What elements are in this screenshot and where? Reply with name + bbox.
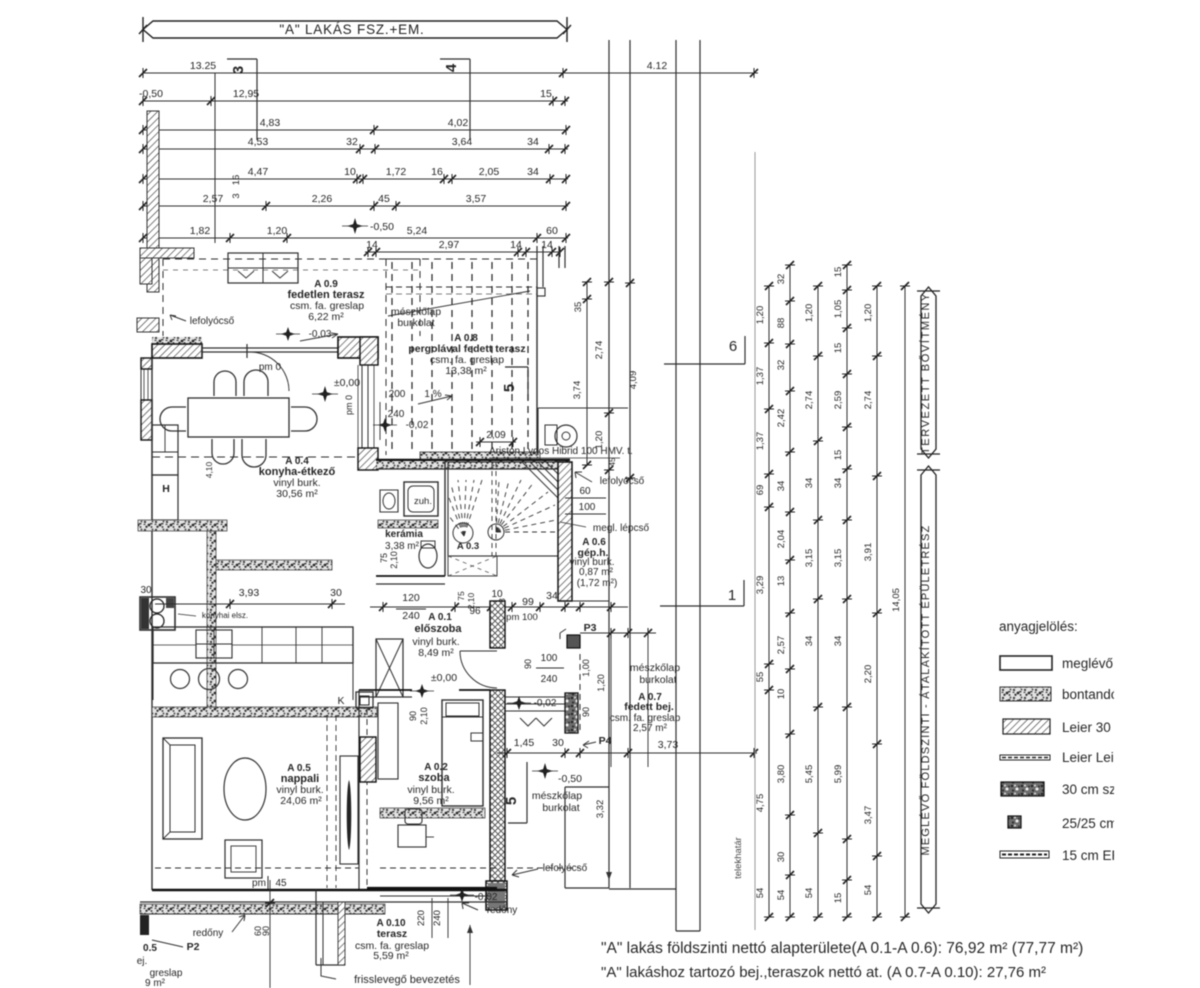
svg-text:2,04: 2,04 — [776, 530, 787, 549]
svg-text:2,57: 2,57 — [776, 636, 787, 655]
banner TERVEZETT BOVITMENY — [921, 287, 936, 458]
dimension row 4,47 / 10 / 1,72 / 16 / 2,05 / 34 — [143, 178, 568, 180]
svg-text:240: 240 — [388, 409, 405, 420]
svg-text:1,45: 1,45 — [514, 737, 535, 749]
dimension row -0,50 / 12,95 / 15 — [143, 100, 568, 102]
dining chair right — [291, 407, 317, 431]
legend swatch meglevo — [1000, 656, 1052, 670]
svg-text:telekhatár: telekhatár — [733, 837, 744, 879]
svg-text:burkolat: burkolat — [542, 802, 579, 814]
svg-text:90: 90 — [261, 926, 271, 936]
svg-text:75: 75 — [379, 553, 389, 563]
svg-text:3,29: 3,29 — [755, 576, 766, 595]
svg-text:szoba: szoba — [418, 772, 450, 784]
column K box — [356, 692, 373, 708]
window right kitchen wall — [361, 365, 363, 448]
svg-text:32: 32 — [776, 274, 787, 285]
svg-text:15: 15 — [833, 450, 844, 461]
dim 3,93 / 30 kitchen — [155, 603, 345, 605]
szoba bottom window dashed — [380, 867, 497, 869]
svg-text:pm: pm — [252, 878, 266, 889]
svg-text:megl. lépcső: megl. lépcső — [593, 523, 650, 534]
sofa — [163, 738, 202, 839]
svg-text:fedett bej.: fedett bej. — [624, 701, 674, 713]
svg-text:3,93: 3,93 — [239, 587, 260, 599]
svg-text:2,42: 2,42 — [776, 409, 787, 428]
property line telekhatar — [754, 152, 756, 930]
geph top line y408 — [538, 407, 628, 409]
wall crosshatch x490 lower — [490, 690, 505, 881]
stair right flight radial treads — [496, 480, 556, 532]
wc toilet — [419, 544, 437, 568]
svg-text:3: 3 — [230, 66, 247, 74]
terrace A 0.8 bottom speckle band — [420, 452, 540, 462]
svg-text:45: 45 — [275, 878, 287, 889]
svg-text:60: 60 — [546, 225, 558, 237]
speckle band szoba y808 — [380, 808, 485, 818]
svg-text:100: 100 — [541, 653, 558, 664]
svg-text:meglévő: meglévő — [1062, 656, 1113, 671]
svg-text:13,38 m²: 13,38 m² — [445, 365, 487, 377]
svg-text:15: 15 — [833, 893, 844, 904]
svg-text:4,75: 4,75 — [755, 794, 766, 813]
szoba left wall hatch block — [360, 737, 376, 782]
dimension row 13.25 / 4.12 — [143, 72, 758, 74]
svg-text:240: 240 — [541, 674, 558, 685]
svg-text:55: 55 — [755, 672, 766, 683]
wall band bathroom top y455 — [376, 459, 570, 461]
legend swatch 25/25 — [1008, 816, 1021, 828]
svg-text:5: 5 — [501, 384, 518, 392]
svg-text:34: 34 — [804, 636, 815, 647]
svg-text:előszoba: előszoba — [414, 623, 462, 635]
svg-text:P2: P2 — [187, 941, 200, 953]
bed — [442, 700, 483, 806]
svg-text:6,22 m²: 6,22 m² — [308, 311, 344, 323]
svg-text:P3: P3 — [584, 622, 597, 634]
svg-text:pm 100: pm 100 — [506, 612, 538, 623]
svg-text:bontandó: bontandó — [1062, 687, 1118, 702]
svg-text:220: 220 — [416, 910, 427, 926]
svg-text:4,53: 4,53 — [248, 136, 269, 148]
svg-text:12,95: 12,95 — [233, 88, 259, 100]
svg-text:100: 100 — [579, 502, 596, 513]
grid marker 3 — [227, 58, 257, 60]
svg-text:2,09: 2,09 — [486, 430, 506, 441]
banner MEGLEVO FOLDSZINTI - ATALAKITOTT EPULETRESZ — [921, 466, 936, 913]
svg-text:34: 34 — [776, 481, 787, 492]
svg-text:MEGLÉVŐ FÖLDSZINTI - ÁTALAKÍTO: MEGLÉVŐ FÖLDSZINTI - ÁTALAKÍTOTT ÉPÜLETR… — [918, 525, 932, 856]
svg-text:2,26: 2,26 — [312, 193, 333, 205]
svg-text:-0,02: -0,02 — [534, 698, 557, 709]
svg-text:4,09: 4,09 — [628, 371, 639, 390]
svg-text:4,83: 4,83 — [260, 117, 281, 129]
svg-text:6: 6 — [729, 338, 737, 355]
svg-text:mészkőlap: mészkőlap — [630, 662, 680, 674]
svg-text:2,97: 2,97 — [439, 239, 460, 251]
dining chairs top — [214, 371, 236, 396]
svg-text:16: 16 — [431, 166, 443, 178]
svg-text:0.5: 0.5 — [143, 943, 157, 954]
svg-text:0,87 m²: 0,87 m² — [579, 567, 614, 578]
dimension row 14 / 2,97 / 14 / 14 — [365, 251, 560, 253]
svg-text:90: 90 — [581, 707, 591, 717]
grid marker 1 — [660, 605, 744, 607]
dim column x818 — [817, 286, 819, 917]
vertical dim 4,09 ticks on x630 — [625, 279, 635, 287]
slope arrow 1% terrace A0.9 — [300, 333, 338, 341]
dimension row 4,53 / 32 / 3,64 / 34 — [143, 148, 568, 150]
svg-text:1,20: 1,20 — [596, 674, 606, 692]
svg-text:H: H — [162, 483, 170, 495]
svg-text:P4: P4 — [599, 735, 612, 747]
svg-text:54: 54 — [755, 888, 766, 899]
small shaft rect 565-609 — [564, 787, 566, 888]
svg-text:1,37: 1,37 — [755, 432, 766, 451]
level mark -0,50 top — [347, 218, 363, 234]
dim row y607 entry — [370, 606, 628, 608]
kitchen counter bottom — [153, 627, 353, 663]
dining chairs bottom — [212, 439, 234, 464]
svg-text:frisslevegő bevezetés: frisslevegő bevezetés — [354, 974, 460, 986]
dim 2,09 in terrace — [476, 441, 516, 443]
window left wall — [140, 369, 142, 400]
terrace A 0.10 slab — [315, 890, 317, 965]
pillar P3 dark — [567, 635, 580, 648]
svg-text:45: 45 — [608, 457, 617, 466]
wall top exterior hatched right segment — [338, 337, 378, 358]
grid marker 5 bottom — [526, 762, 528, 823]
stair outline — [448, 462, 560, 556]
porch dim line y633 — [580, 632, 656, 634]
porch dashed edge x580 — [579, 654, 581, 733]
svg-text:ej.: ej. — [137, 956, 148, 967]
svg-text:120: 120 — [402, 592, 420, 604]
grid marker 4 — [440, 58, 470, 60]
section line x676 — [675, 40, 677, 931]
sliding door opening top wall — [202, 347, 338, 349]
stair top-right solid treads — [522, 462, 560, 500]
bath bottom wall — [376, 575, 445, 577]
dim column x847 — [846, 265, 848, 917]
svg-text:14: 14 — [366, 239, 378, 251]
svg-text:90: 90 — [523, 659, 533, 669]
svg-text:redőny: redőny — [193, 928, 224, 939]
svg-text:lefolyócső: lefolyócső — [190, 316, 235, 327]
svg-text:"A" lakáshoz tartozó bej.,tera: "A" lakáshoz tartozó bej.,teraszok nettó… — [601, 964, 1046, 981]
svg-text:34: 34 — [527, 166, 539, 178]
svg-text:3,47: 3,47 — [863, 806, 874, 825]
under-stair dashed box — [448, 556, 497, 576]
level mark -0,03 — [281, 327, 295, 341]
svg-text:3,15: 3,15 — [804, 549, 815, 568]
svg-text:99: 99 — [522, 596, 534, 608]
legend swatch Leier Leiertherm — [1000, 755, 1050, 760]
svg-text:30: 30 — [552, 737, 564, 749]
svg-text:-0,02: -0,02 — [406, 420, 429, 431]
dim column x905 total 14,05 — [904, 286, 906, 917]
svg-text:mészkőlap: mészkőlap — [532, 790, 582, 802]
svg-text:32: 32 — [776, 360, 787, 371]
dining table — [188, 398, 289, 437]
svg-text:34: 34 — [804, 478, 815, 489]
wardrobe szoba — [378, 703, 398, 779]
wall between eloszoba and szoba — [359, 689, 412, 691]
tall cabinet H — [152, 425, 178, 475]
porch steps — [505, 696, 565, 698]
bottom wall lines — [152, 889, 507, 891]
svg-text:32: 32 — [346, 136, 358, 148]
washbasin — [380, 490, 398, 512]
speckle band old wall y707 kitchen-living — [152, 707, 377, 717]
svg-text:A 0.3: A 0.3 — [457, 541, 479, 552]
speckle band old wall y520 — [138, 520, 227, 531]
wall right stair hatched x558 — [558, 462, 572, 601]
terrace A 0.8 plank lines dashed — [391, 262, 393, 452]
svg-text:240: 240 — [402, 610, 420, 622]
svg-text:3,57: 3,57 — [466, 193, 487, 205]
level mark entry 0,00 — [415, 684, 429, 698]
svg-text:5,99: 5,99 — [833, 765, 844, 784]
grid marker 5 top — [505, 366, 528, 368]
level mark -0,02 bottom — [455, 888, 469, 902]
svg-text:15: 15 — [540, 88, 552, 100]
dim column x790 — [789, 265, 791, 917]
svg-text:3,73: 3,73 — [658, 739, 679, 751]
svg-text:34: 34 — [833, 636, 844, 647]
szoba left wall lines — [358, 690, 360, 890]
level mark plus-minus 0,00 kitchen — [317, 386, 333, 402]
svg-text:10: 10 — [344, 166, 356, 178]
armchair — [225, 840, 262, 878]
svg-text:54: 54 — [804, 888, 815, 899]
svg-text:3,38 m²: 3,38 m² — [385, 541, 420, 552]
svg-text:1,00: 1,00 — [581, 659, 591, 677]
chimney shaft with X — [376, 639, 403, 697]
section line x700 — [699, 40, 701, 931]
svg-text:3: 3 — [231, 193, 242, 198]
svg-text:Leier 30: Leier 30 — [1062, 720, 1111, 735]
svg-text:2,20: 2,20 — [863, 665, 874, 684]
svg-text:9,56 m²: 9,56 m² — [413, 795, 449, 807]
svg-text:2,74: 2,74 — [594, 341, 605, 360]
svg-text:2,74: 2,74 — [804, 391, 815, 410]
svg-text:Ariston Lydos Hibrid 100 HMV.: Ariston Lydos Hibrid 100 HMV. t. — [489, 446, 633, 457]
wall end dark block bottom — [486, 881, 507, 910]
svg-text:5,24: 5,24 — [407, 225, 428, 237]
dim row y753 porch bottom — [497, 752, 757, 754]
boiler Ariston circle — [555, 425, 577, 447]
level mark -0,50 bottom terrace — [537, 763, 553, 779]
svg-text:2,10: 2,10 — [389, 551, 399, 569]
grid marker 6 — [664, 363, 745, 365]
svg-text:1,82: 1,82 — [190, 225, 211, 237]
svg-text:34: 34 — [527, 136, 539, 148]
svg-text:1,20: 1,20 — [804, 304, 815, 323]
coffee table oval — [224, 758, 266, 820]
vertical dim 35 / 3,74 at x587 — [586, 282, 588, 465]
svg-text:1,05: 1,05 — [833, 300, 844, 319]
svg-text:3,15: 3,15 — [833, 549, 844, 568]
dimension row 2,57 / 2,26 / 45 / 3,57 — [143, 205, 568, 207]
svg-text:3,64: 3,64 — [452, 136, 473, 148]
pillar P2 dark — [140, 915, 149, 935]
svg-text:"A" LAKÁS FSZ.+EM.: "A" LAKÁS FSZ.+EM. — [279, 22, 424, 37]
wall hatch stub top-left horizontal — [140, 248, 194, 258]
svg-text:2,10: 2,10 — [466, 592, 476, 609]
kitchen zone dashed boundary — [152, 456, 358, 458]
porch bottom dashed — [507, 867, 580, 869]
svg-text:"A" lakás földszinti nettó ala: "A" lakás földszinti nettó alapterülete(… — [601, 940, 1083, 957]
svg-text:burkolat: burkolat — [397, 317, 434, 329]
svg-text:60: 60 — [579, 486, 591, 497]
svg-text:±0,00: ±0,00 — [431, 672, 457, 684]
stair mid dashed rails — [491, 462, 493, 556]
svg-text:zuh.: zuh. — [414, 496, 432, 507]
stair left flight radial dashed treads — [449, 480, 482, 536]
svg-text:24,06 m²: 24,06 m² — [280, 795, 322, 807]
dim column x877 — [876, 286, 878, 917]
terrace A 0.9 dashed boundary — [163, 258, 420, 260]
svg-text:14: 14 — [510, 239, 522, 251]
svg-text:14,05: 14,05 — [891, 588, 902, 612]
svg-text:1,37: 1,37 — [755, 367, 766, 386]
planter box top — [228, 253, 298, 283]
kitchen sink unit — [140, 597, 175, 630]
pillar P4 dark speckled — [565, 693, 578, 733]
wall hatch stub left mid — [137, 318, 159, 332]
svg-text:4.12: 4.12 — [647, 60, 668, 72]
svg-text:3,74: 3,74 — [572, 381, 583, 400]
svg-text:30: 30 — [776, 852, 787, 863]
legend swatch Leier 30 — [1003, 719, 1050, 734]
svg-text:anyagjelölés:: anyagjelölés: — [999, 619, 1078, 634]
dimension row 4,83 / 4,02 — [143, 129, 568, 131]
dim vertical x470 bottom — [469, 925, 471, 985]
dining chair left — [160, 407, 186, 431]
door arc kitchen terrace door — [250, 352, 289, 391]
svg-text:1: 1 — [728, 587, 736, 604]
wall crosshatch x490 upper — [490, 601, 505, 648]
wall interior left edge line — [151, 358, 153, 890]
svg-text:1 %: 1 % — [424, 389, 441, 400]
tv cabinet — [340, 756, 358, 864]
door arc entry at crosshatch wall — [460, 651, 497, 688]
svg-text:13.25: 13.25 — [190, 60, 216, 72]
svg-text:2,59: 2,59 — [833, 391, 844, 410]
title banner A LAKAS FSZ.+EM. — [139, 17, 571, 42]
wall right of kitchen upper hatch — [360, 337, 378, 365]
svg-text:2,74: 2,74 — [863, 391, 874, 410]
svg-text:konyhai elsz.: konyhai elsz. — [202, 611, 248, 620]
legend swatch 30 cm — [1001, 782, 1044, 796]
hob circles — [171, 670, 190, 689]
wall left exterior lower hatched — [141, 400, 152, 440]
speckle band bath y520 — [378, 520, 438, 528]
svg-text:10: 10 — [776, 689, 787, 700]
bath right wall — [444, 460, 446, 576]
svg-text:54: 54 — [863, 885, 874, 896]
svg-text:burkolat: burkolat — [639, 674, 676, 686]
svg-text:90: 90 — [408, 711, 418, 721]
svg-text:4,10: 4,10 — [204, 461, 214, 478]
svg-text:13: 13 — [776, 576, 787, 587]
legend swatch bontando — [1000, 687, 1051, 701]
svg-text:16: 16 — [231, 175, 242, 186]
svg-text:-0,50: -0,50 — [139, 88, 163, 100]
svg-text:3,91: 3,91 — [863, 543, 874, 562]
svg-text:-0,50: -0,50 — [558, 773, 582, 785]
svg-text:1,20: 1,20 — [755, 306, 766, 325]
svg-text:4,47: 4,47 — [248, 166, 269, 178]
extension line x215 — [214, 73, 216, 243]
section line x630 — [629, 40, 631, 888]
svg-text:200: 200 — [389, 389, 406, 400]
dimension row 1,82 / 1,20 / 5,24 / 60 — [143, 237, 568, 239]
wall hatched neighbour left x147-159 — [147, 111, 159, 292]
svg-text:2,05: 2,05 — [479, 166, 500, 178]
svg-text:5,59 m²: 5,59 m² — [373, 950, 409, 962]
wall stubs above terrace A 0.8 — [536, 246, 538, 287]
dashed front line nappali — [155, 867, 359, 869]
leader diagonal to meszkolap — [388, 291, 530, 316]
svg-text:lefolyócső: lefolyócső — [600, 476, 645, 487]
svg-text:redőny: redőny — [487, 905, 518, 916]
svg-text:30: 30 — [330, 587, 342, 599]
terrace A 0.8 dashed boundary — [386, 258, 537, 260]
wall left exterior upper hatched — [141, 358, 152, 369]
svg-text:1,20: 1,20 — [267, 225, 288, 237]
svg-text:4: 4 — [443, 63, 460, 72]
svg-text:(1,72 m²): (1,72 m²) — [577, 578, 618, 589]
svg-text:TERVEZETT BŐVÍTMÉNY: TERVEZETT BŐVÍTMÉNY — [918, 292, 932, 454]
geph bottom line — [572, 600, 609, 602]
svg-text:pm 0: pm 0 — [344, 395, 354, 415]
svg-text:1,72: 1,72 — [386, 166, 407, 178]
svg-text:K: K — [337, 695, 344, 707]
svg-text:30,56 m²: 30,56 m² — [276, 488, 318, 500]
svg-text:4,02: 4,02 — [448, 117, 469, 129]
svg-text:2,57 m²: 2,57 m² — [633, 723, 668, 734]
desk szoba — [398, 825, 426, 847]
svg-text:terasz: terasz — [377, 928, 407, 940]
bottom connector lines — [609, 888, 676, 890]
svg-text:2,57: 2,57 — [203, 193, 224, 205]
svg-text:2,10: 2,10 — [419, 707, 429, 725]
svg-text:±0,00: ±0,00 — [334, 377, 360, 389]
svg-text:15: 15 — [833, 267, 844, 278]
svg-text:240: 240 — [432, 910, 443, 926]
svg-text:30: 30 — [140, 585, 152, 596]
svg-text:-0,50: -0,50 — [370, 221, 394, 233]
dim pm45 vertical line — [269, 880, 271, 988]
terrace A 0.8 right edge — [536, 287, 538, 455]
svg-text:kerámia: kerámia — [385, 529, 423, 540]
section line x609 — [608, 40, 610, 888]
legend swatch 15 cm — [1000, 851, 1049, 858]
vertical dim 2,74 / 1,20 ticks on x609 — [604, 278, 614, 286]
svg-text:34: 34 — [546, 590, 558, 602]
svg-text:15: 15 — [833, 343, 844, 354]
svg-text:3,80: 3,80 — [776, 765, 787, 784]
svg-text:35: 35 — [573, 302, 584, 313]
speckle vertical old wall x207 — [207, 531, 216, 707]
svg-text:69: 69 — [755, 485, 766, 496]
svg-text:54: 54 — [776, 890, 787, 901]
svg-text:A 0.1: A 0.1 — [428, 612, 452, 623]
wall top exterior hatched left segment — [152, 337, 202, 344]
svg-text:8,49 m²: 8,49 m² — [418, 647, 454, 659]
